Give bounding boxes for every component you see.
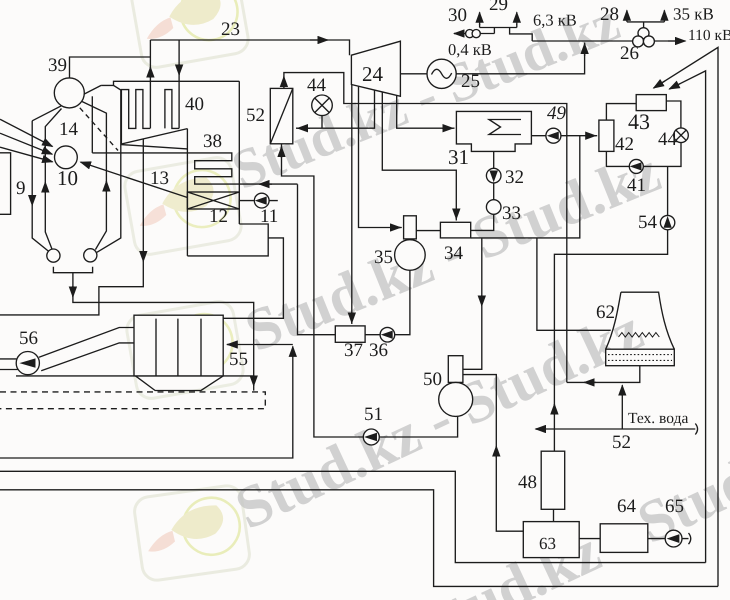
burner 10 — [55, 146, 78, 169]
wire network return — [554, 166, 667, 451]
svg-text:39: 39 — [48, 55, 67, 76]
boiler roof — [101, 81, 239, 85]
shaft right wall — [238, 81, 240, 224]
filter 64 — [600, 524, 648, 553]
svg-text:Тех. вода: Тех. вода — [628, 410, 688, 427]
trap 33 — [493, 183, 495, 200]
svg-text:23: 23 — [221, 19, 240, 40]
svg-text:14: 14 — [59, 119, 79, 140]
svg-text:0,4 кВ: 0,4 кВ — [448, 40, 492, 59]
wire raw water inlet — [682, 533, 691, 544]
furnace right wall inner — [82, 102, 106, 250]
svg-text:11: 11 — [260, 206, 278, 227]
wire condensate from 50 to 52 — [282, 144, 458, 437]
wire condensate main 34-49 — [471, 136, 580, 238]
wire extraction to deaerator 34 — [382, 92, 456, 221]
svg-text:42: 42 — [615, 134, 634, 155]
svg-text:54: 54 — [638, 212, 658, 233]
svg-text:51: 51 — [364, 404, 383, 425]
superheater 40 left coil — [121, 90, 150, 144]
wire riser arrow right — [105, 181, 107, 192]
wire 55 outlet — [227, 344, 293, 346]
svg-text:28: 28 — [600, 4, 619, 25]
wire fuel feed 3 — [0, 147, 53, 162]
electroboiler feed 42 — [599, 120, 614, 151]
wire 110 kV line — [532, 40, 678, 42]
pump 65 — [665, 530, 682, 547]
precipitator 55 — [134, 315, 223, 376]
svg-text:38: 38 — [203, 131, 222, 152]
wire 33 to 34 — [471, 214, 494, 230]
wire 63 to 64 — [579, 538, 600, 540]
dashed drum slope — [80, 108, 118, 151]
svg-text:63: 63 — [539, 534, 556, 553]
wire 43 to valve 44 — [666, 101, 681, 128]
svg-text:30: 30 — [448, 5, 467, 26]
svg-text:50: 50 — [423, 369, 442, 390]
wire fuel feed 1 — [0, 119, 53, 146]
svg-text:62: 62 — [596, 302, 615, 323]
wire fuel feed 2 — [0, 133, 52, 154]
wire riser arrow left — [44, 182, 46, 193]
wire HV feed outer — [654, 47, 718, 586]
evaporator 35 — [404, 216, 417, 239]
bus 0,4 kV — [454, 33, 494, 35]
wire downcomer arrow — [31, 195, 33, 206]
wire feedwater 37 to economizer — [298, 184, 336, 334]
wire tower outlet — [567, 366, 640, 383]
water treatment 63 — [523, 522, 579, 558]
svg-text:35: 35 — [374, 247, 393, 268]
pump 32 — [493, 151, 495, 168]
wire superheater downcomer — [178, 40, 180, 128]
wire drain to 37 — [351, 85, 353, 324]
shaft left wall — [186, 129, 188, 256]
heater 31 — [456, 111, 531, 151]
svg-text:49: 49 — [547, 103, 567, 124]
svg-text:110 кВ: 110 кВ — [688, 27, 730, 44]
svg-text:40: 40 — [185, 94, 204, 115]
pump 11 — [239, 200, 277, 202]
bus 29 — [480, 24, 517, 34]
wire drain to 35 — [359, 87, 402, 228]
wire steam line 23 to turbine — [150, 40, 349, 55]
dashed flue duct — [0, 392, 265, 409]
svg-text:55: 55 — [229, 349, 248, 370]
svg-text:64: 64 — [617, 496, 637, 517]
svg-text:48: 48 — [518, 472, 537, 493]
slag bracket — [53, 267, 92, 273]
lower header right — [84, 249, 97, 262]
svg-text:41: 41 — [627, 175, 646, 196]
valve 44 right — [674, 128, 689, 143]
wire extraction to condenser 52 — [296, 90, 375, 128]
wire fan ground line — [16, 375, 254, 377]
watermark logo mid-left — [123, 155, 244, 256]
wire fan duct lower — [41, 343, 134, 371]
svg-text:31: 31 — [448, 145, 469, 169]
wire slag drop — [73, 273, 254, 391]
svg-text:13: 13 — [150, 168, 169, 189]
superheater 40 right coil — [165, 90, 179, 129]
valve 44 left — [312, 95, 333, 116]
watermark logo top-left — [130, 0, 251, 70]
bunker 9 — [0, 153, 11, 215]
svg-text:34: 34 — [444, 243, 464, 264]
svg-text:43: 43 — [628, 109, 650, 134]
svg-text:24: 24 — [362, 62, 384, 86]
wire drum feed riser — [91, 96, 93, 153]
condenser 52 — [270, 88, 293, 143]
wire 44 to 42 return — [606, 143, 681, 167]
svg-text:65: 65 — [665, 496, 684, 517]
svg-text:32: 32 — [505, 167, 524, 188]
boiler nose slope upper — [121, 129, 187, 144]
pump 49 — [531, 135, 597, 137]
wire generator to bus — [456, 43, 584, 74]
furnace right wall outer — [97, 85, 121, 252]
boiler roof slope — [32, 85, 101, 120]
watermark logo bottom-left — [133, 484, 252, 582]
pump 51 — [363, 429, 379, 445]
wire 52 cooling outlet — [284, 73, 567, 383]
svg-text:52: 52 — [612, 432, 631, 453]
wire 6,3 kV bus — [510, 28, 533, 42]
svg-text:35 кВ: 35 кВ — [673, 5, 714, 24]
tank 37 — [335, 326, 365, 342]
transformer 0,4 kV — [466, 29, 474, 37]
lower header left — [47, 249, 60, 262]
svg-text:6,3 кВ: 6,3 кВ — [533, 11, 577, 30]
wire 48 to 63 — [553, 509, 555, 521]
pump 36 — [380, 327, 395, 342]
wire 42 to 43 — [606, 104, 636, 121]
wire extraction to heater 31 — [397, 95, 455, 128]
svg-text:37: 37 — [344, 340, 363, 361]
wire gas recirculation duct — [0, 140, 143, 315]
wire HV feed inner — [670, 71, 706, 563]
cooling tower 62 — [606, 292, 675, 349]
svg-text:36: 36 — [369, 340, 388, 361]
wire circwater frame inner — [0, 471, 706, 562]
svg-text:9: 9 — [16, 178, 26, 199]
generator 25 — [400, 73, 427, 75]
pump 41 — [629, 159, 643, 173]
wire tech water to tower — [621, 386, 623, 429]
svg-text:44: 44 — [658, 129, 678, 150]
boiler drum 39 — [54, 78, 84, 108]
wire 64 to 65 — [648, 538, 665, 540]
svg-text:12: 12 — [209, 206, 228, 227]
transformer 26 — [638, 28, 649, 39]
turbine 24 — [351, 41, 400, 96]
svg-text:10: 10 — [57, 166, 78, 190]
watermark logo precipitator — [125, 299, 246, 400]
svg-text:29: 29 — [489, 0, 508, 15]
wire circwater to tower — [537, 238, 612, 330]
wire drum to steam line — [70, 57, 151, 78]
flash tank 50 — [448, 356, 463, 383]
bus 28 / 35 kV — [627, 22, 665, 28]
wire 35 drain — [365, 270, 410, 334]
shaft bottom — [187, 224, 268, 256]
fan 56 — [16, 352, 39, 375]
electroboiler 43 — [636, 95, 666, 111]
economizer 38 coil with drum feed — [92, 153, 297, 184]
svg-text:44: 44 — [307, 75, 327, 96]
wire fan duct upper — [39, 328, 134, 358]
svg-text:52: 52 — [246, 105, 265, 126]
wire makeup 63 to 50 — [463, 375, 523, 532]
svg-text:33: 33 — [502, 203, 521, 224]
wire gas to stack — [0, 347, 293, 458]
wire circwater frame outer — [0, 490, 718, 587]
pump 54 — [660, 215, 674, 229]
wire superheater riser — [149, 40, 151, 128]
svg-text:25: 25 — [461, 71, 480, 92]
furnace left wall inner — [45, 109, 61, 250]
wire flue gas exit — [223, 238, 283, 318]
wire steam to 50 — [463, 238, 482, 369]
furnace left wall outer — [32, 121, 49, 252]
deaerator 34 — [440, 222, 470, 238]
svg-text:56: 56 — [19, 328, 38, 349]
wire hot air to burner — [82, 162, 188, 197]
air heater 12 — [187, 192, 239, 209]
wire tech water line — [536, 428, 695, 430]
svg-text:26: 26 — [620, 43, 639, 64]
boiler nose slope lower — [121, 145, 187, 149]
tank 48 — [541, 451, 565, 509]
wire 35 to 34 — [416, 230, 440, 232]
